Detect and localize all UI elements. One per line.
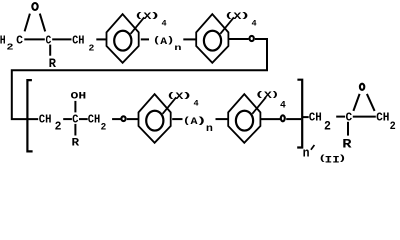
svg-text:(: ( bbox=[183, 116, 191, 126]
svg-text:n: n bbox=[174, 43, 181, 53]
bond C-R b2 bbox=[347, 122, 349, 136]
svg-text:): ) bbox=[239, 13, 250, 21]
svg-text:H: H bbox=[0, 34, 6, 48]
svg-text:): ) bbox=[271, 92, 280, 100]
benzene ring 3 bbox=[139, 94, 171, 143]
open bracket bbox=[27, 80, 32, 151]
bond C-CH2 mid bbox=[79, 118, 88, 120]
wire: chain wrap-around from top-row O to bottom row bbox=[12, 39, 267, 119]
svg-text:CH: CH bbox=[309, 111, 322, 125]
svg-text:): ) bbox=[338, 155, 347, 164]
svg-text:2: 2 bbox=[55, 119, 62, 133]
svg-text:n: n bbox=[303, 146, 310, 161]
svg-text:): ) bbox=[149, 13, 160, 21]
bond ring4-O bbox=[260, 118, 280, 120]
bond (A)n-ring2 bbox=[183, 38, 195, 40]
svg-text:2: 2 bbox=[88, 43, 94, 53]
svg-text:CH: CH bbox=[39, 112, 52, 126]
bond O-ring3 bbox=[127, 118, 139, 120]
bond H2C-C bbox=[24, 38, 45, 40]
bond CH2-C r bbox=[336, 116, 345, 118]
svg-text:C: C bbox=[72, 112, 78, 126]
svg-text:4: 4 bbox=[193, 98, 198, 108]
svg-text:4: 4 bbox=[161, 18, 166, 28]
epoxide1 right leg bbox=[40, 14, 45, 32]
bond (A)n-ring4 bbox=[216, 118, 229, 120]
svg-text:n: n bbox=[206, 123, 213, 134]
atom epoxide O right bbox=[360, 84, 364, 90]
svg-text:2: 2 bbox=[7, 42, 14, 53]
svg-text:CH: CH bbox=[376, 111, 389, 125]
svg-text:2: 2 bbox=[324, 119, 331, 133]
svg-text:4: 4 bbox=[251, 18, 256, 28]
svg-text:CH: CH bbox=[88, 112, 100, 126]
bond C-R b1 bbox=[74, 124, 76, 136]
benzene ring 1 bbox=[107, 14, 139, 63]
epoxide1 left leg bbox=[25, 14, 30, 32]
bond ring2-O bbox=[228, 38, 248, 40]
svg-text:4: 4 bbox=[280, 100, 286, 111]
bond ring1-(A) bbox=[141, 38, 149, 40]
bond C2-R bbox=[49, 45, 51, 56]
bond C-CH2 bbox=[52, 38, 71, 40]
svg-text:R: R bbox=[342, 136, 352, 151]
atom ether O top row bbox=[250, 36, 254, 41]
svg-text:R: R bbox=[72, 136, 80, 149]
epoxide2 left leg bbox=[353, 94, 359, 111]
atom epoxide O top-left bbox=[32, 3, 37, 10]
atom ether O bottom 2 bbox=[281, 115, 285, 121]
benzene ring 4 bbox=[228, 94, 260, 143]
bond CH2-O b bbox=[112, 118, 121, 120]
svg-text:): ) bbox=[181, 93, 192, 101]
atom ether O bottom 1 bbox=[121, 116, 125, 121]
svg-text:2: 2 bbox=[390, 121, 396, 133]
ring1 X bond bbox=[131, 17, 145, 34]
svg-text:C: C bbox=[16, 33, 23, 47]
prime n' bbox=[311, 145, 315, 150]
svg-text:CH: CH bbox=[72, 33, 84, 47]
epoxide2 right leg bbox=[367, 94, 375, 111]
close bracket bbox=[297, 80, 302, 148]
bond C-OH bbox=[74, 101, 76, 113]
bond bracket-CH2 bbox=[302, 116, 308, 118]
ring2 X bond bbox=[220, 17, 234, 34]
svg-text:2: 2 bbox=[101, 122, 107, 133]
bond ring3-(A) bbox=[172, 118, 182, 120]
bond O-bracket bbox=[286, 118, 301, 120]
bond CH2-ring1 bbox=[96, 38, 106, 40]
svg-text:OH: OH bbox=[71, 91, 87, 102]
bond C-CH2 r bbox=[353, 116, 376, 118]
ring4 X bond bbox=[252, 97, 266, 114]
svg-text:C: C bbox=[46, 33, 52, 47]
benzene ring 2 bbox=[196, 14, 228, 63]
bond CH2-C mid bbox=[63, 118, 72, 120]
ring3 X bond bbox=[163, 97, 177, 114]
svg-text:C: C bbox=[345, 111, 352, 125]
svg-text:R: R bbox=[49, 57, 57, 71]
